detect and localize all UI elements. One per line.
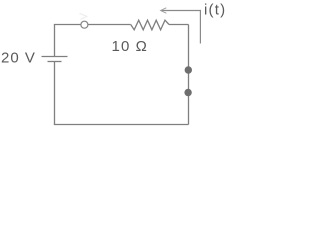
switch arm ghost mark (80, 13, 87, 19)
wire: switch to resistor (88, 24, 131, 26)
battery V1 long plate (+) (42, 56, 68, 58)
wire: top-left segment from corner to switch (54, 24, 81, 26)
wire: resistor to top-right corner (169, 24, 189, 26)
battery V1 short plate (-) (48, 61, 62, 63)
switch terminal (open circle) (81, 21, 88, 28)
node terminal dot lower (184, 89, 191, 96)
current arrow i(t) (161, 11, 201, 44)
resistor R 10 ohm zigzag (131, 20, 169, 30)
svg-text:10 Ω: 10 Ω (112, 38, 148, 55)
wire: right side (188, 25, 190, 125)
svg-text:i(t): i(t) (204, 2, 226, 19)
wire: left side above battery (54, 25, 56, 57)
svg-text:20 V: 20 V (1, 50, 36, 67)
node terminal dot upper (185, 66, 192, 73)
wire: left side below battery (54, 62, 56, 125)
wire: bottom (54, 124, 189, 126)
